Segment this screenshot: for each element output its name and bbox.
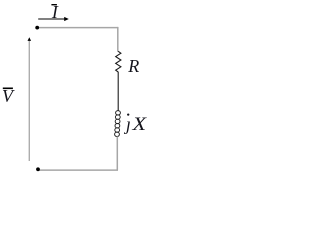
label jX : j dot [127, 113, 129, 115]
svg-text:X: X [131, 114, 147, 135]
label V overline [3, 88, 13, 90]
inductor jX coil [115, 111, 121, 137]
wire top horizontal [37, 27, 118, 29]
wire bottom-right vertical [116, 136, 118, 170]
svg-text:R: R [127, 56, 139, 76]
current arrow shaft [38, 18, 65, 20]
svg-text:ȷ: ȷ [124, 114, 131, 134]
voltage reference line (left) [28, 40, 30, 161]
label I overline [51, 4, 57, 5]
wire right vertical upper [117, 27, 119, 52]
current arrowhead (right) [64, 17, 69, 21]
wire middle black vertical (between R and coil) [117, 72, 119, 111]
wire bottom horizontal [38, 169, 118, 171]
voltage arrowhead (up) [28, 37, 32, 41]
resistor R [116, 51, 121, 72]
svg-text:I: I [51, 2, 59, 22]
node bottom-left terminal dot [36, 167, 40, 171]
node top-left terminal dot [35, 26, 39, 30]
svg-text:V: V [2, 86, 15, 106]
